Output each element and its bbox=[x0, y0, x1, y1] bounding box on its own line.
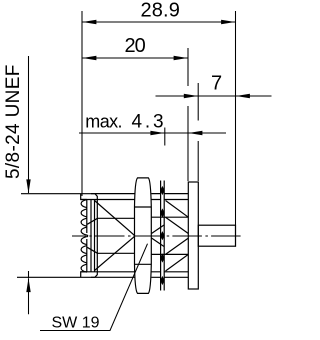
extension line flange front bbox=[187, 48, 189, 181]
washer-flange bore bottom bbox=[151, 253, 188, 255]
contact diagonal upper bbox=[95, 201, 135, 236]
extension line flange rear bbox=[197, 83, 199, 181]
barrel bottom edge bbox=[91, 276, 188, 278]
arrowhead 20 left bbox=[82, 56, 96, 60]
barrel inner bottom line bbox=[81, 271, 189, 273]
washer-flange diag low1 bbox=[166, 254, 189, 271]
arrowhead 28.9 left bbox=[82, 20, 96, 24]
arrowhead max4.3 left (outside) bbox=[150, 131, 164, 135]
extension line right (rear face) bbox=[235, 11, 237, 247]
dimension 20 line bbox=[82, 57, 188, 59]
lock washer serration 5 bbox=[160, 276, 165, 285]
bore cone bottom bbox=[87, 247, 97, 253]
extension line thread bottom bbox=[17, 276, 95, 278]
lock washer serration 2 bbox=[160, 208, 165, 217]
bore cone top bbox=[87, 218, 97, 224]
svg-text:20: 20 bbox=[125, 35, 146, 57]
lock washer serration 3 bbox=[160, 231, 165, 240]
svg-text:28.9: 28.9 bbox=[141, 0, 181, 22]
dimension max 4.3 line bbox=[79, 132, 226, 134]
arrowhead 20 right bbox=[174, 56, 188, 60]
arrowhead 5/8-24 up bbox=[26, 278, 30, 292]
bore bottom line bbox=[98, 252, 135, 254]
svg-text:5/8-24 UNEF: 5/8-24 UNEF bbox=[3, 64, 24, 179]
arrowhead 28.9 right bbox=[221, 20, 235, 24]
hex nut chamfer line bottom bbox=[135, 263, 152, 265]
bore top line bbox=[98, 217, 135, 219]
centerline bbox=[72, 235, 241, 237]
thread wavy profile (5/8-24 UNEF external thread) bbox=[81, 194, 87, 200]
thread root line bbox=[86, 200, 88, 272]
barrel inner top line bbox=[81, 199, 189, 201]
arrowhead 7 right (outside) bbox=[236, 94, 250, 98]
nut-washer diag upper bbox=[152, 225, 165, 234]
contact diagonal lower bbox=[95, 236, 135, 270]
washer-flange diag low2 bbox=[166, 238, 189, 254]
arrowhead 7 left (outside) bbox=[184, 94, 198, 98]
barrel top edge bbox=[91, 193, 188, 195]
extension tick max4.3 left bbox=[164, 128, 166, 146]
barrel front face bbox=[94, 200, 96, 272]
dimension 28.9 line bbox=[82, 21, 236, 23]
arrowhead 5/8-24 down bbox=[26, 179, 30, 193]
barrel groove line (chamfered corners) bbox=[95, 194, 97, 278]
dimension 7 line bbox=[156, 95, 272, 97]
svg-text:4.3: 4.3 bbox=[132, 112, 167, 133]
dimension 5/8-24 UNEF line bbox=[28, 56, 30, 314]
nut-washer diag lower bbox=[152, 238, 165, 247]
lock washer serration 1 bbox=[160, 186, 165, 195]
svg-text:max.: max. bbox=[85, 112, 122, 132]
washer-flange diag up2 bbox=[166, 217, 189, 233]
arrowhead max4.3 right (outside) bbox=[188, 131, 202, 135]
thread relief line bbox=[90, 200, 92, 272]
extension line left (front face) bbox=[81, 11, 83, 196]
SW19 leader underline bbox=[40, 244, 148, 331]
hex nut chamfer line top bbox=[135, 206, 152, 208]
washer-flange diag up1 bbox=[166, 201, 189, 218]
hex nut SW19 outline bbox=[135, 178, 152, 294]
lock washer faces bbox=[161, 181, 165, 291]
svg-text:7: 7 bbox=[211, 73, 222, 95]
svg-text:SW 19: SW 19 bbox=[52, 315, 100, 332]
washer-flange bore top bbox=[151, 216, 188, 218]
extension line thread top bbox=[21, 193, 95, 195]
rear solder pot bbox=[198, 225, 235, 246]
flange plate bbox=[188, 182, 198, 289]
lock washer serration 4 bbox=[160, 253, 165, 262]
